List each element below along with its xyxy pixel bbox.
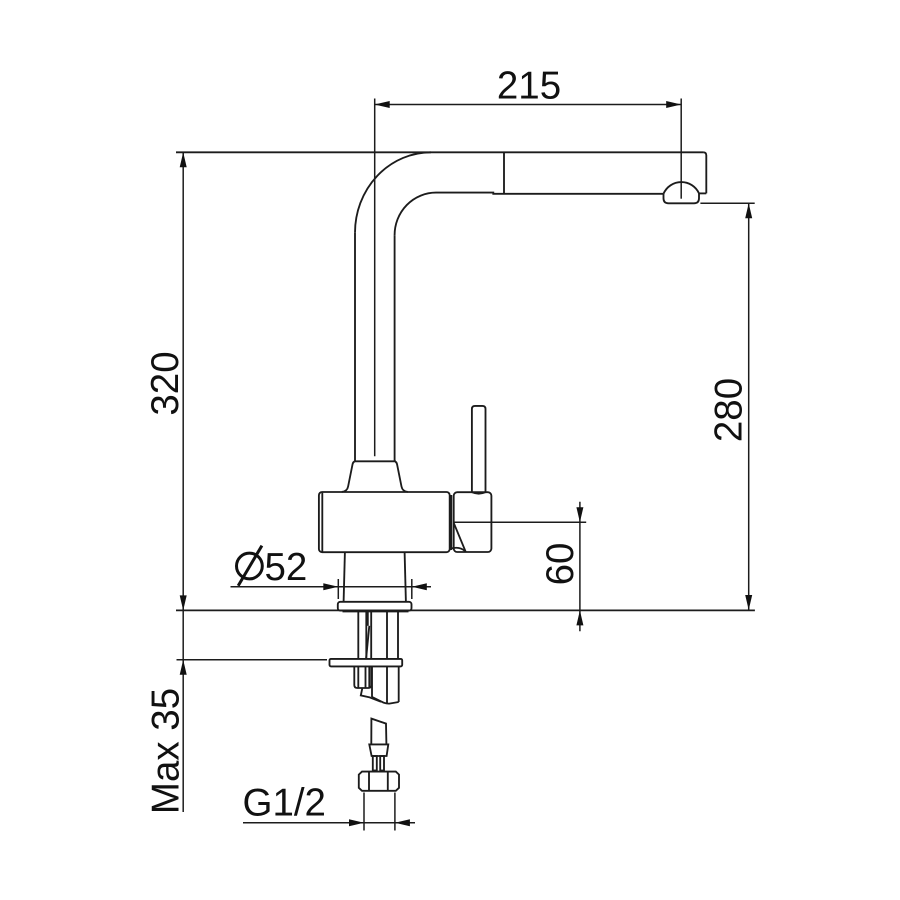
countertop line <box>176 609 755 611</box>
handle cone bottom arc <box>450 548 465 552</box>
handle lever left edge <box>471 409 473 492</box>
handle base joint feature + 60 extension line <box>454 521 587 523</box>
svg-text:Max 35: Max 35 <box>145 688 188 814</box>
left dimension line 320 / Max 35 <box>182 152 184 812</box>
hose prong 2 <box>380 756 384 771</box>
handle lever right edge <box>485 409 487 492</box>
280 top extension line <box>700 202 754 204</box>
aerator dome <box>664 182 700 194</box>
mounting nut facet lines <box>358 666 369 688</box>
svg-text:280: 280 <box>708 378 751 442</box>
spout bottom edge right of aerator <box>699 192 706 194</box>
215 right extension line <box>680 99 682 199</box>
handle lever top cap <box>472 406 486 409</box>
shank line 4 <box>386 612 388 659</box>
handle cone diagonal <box>454 523 466 552</box>
body cone left side <box>342 462 355 492</box>
shank line 3 <box>370 612 372 659</box>
shank hose diagonal <box>366 626 369 659</box>
handle ring line <box>450 495 452 550</box>
body arm outline <box>319 492 450 552</box>
escutcheon flange <box>338 602 412 611</box>
svg-text:52: 52 <box>265 546 308 589</box>
arrow 280 top <box>745 203 752 218</box>
60 dimension line <box>579 502 581 632</box>
arrow diameter52 left <box>323 583 338 590</box>
arrow 320 bottom / Max35 top <box>180 595 187 610</box>
arrow 60 bottom <box>576 610 583 625</box>
tube right edge below washer <box>398 666 400 702</box>
arrow diameter52 right <box>412 583 427 590</box>
tube slanted bottom <box>372 697 399 704</box>
base neck left edge <box>344 552 345 602</box>
spout bottom edge <box>436 193 664 194</box>
shank short line <box>367 612 369 626</box>
hose prong 1 <box>373 756 377 771</box>
G1/2 right extension line <box>394 793 396 831</box>
svg-text:G1/2: G1/2 <box>243 782 326 825</box>
tube left edge below washer <box>371 666 373 697</box>
handle lever bottom sag arc <box>472 492 486 494</box>
spout outer curve <box>355 152 431 232</box>
flange bottom lip <box>343 611 409 613</box>
280 dimension line <box>748 203 750 610</box>
detached hose piece <box>371 719 386 744</box>
arrow 215 left <box>375 101 390 108</box>
riser pipe left edge <box>354 233 356 462</box>
hose stub outline <box>361 688 381 702</box>
diameter symbol slash <box>238 546 262 586</box>
G1/2 nut outline <box>359 772 399 791</box>
riser pipe right edge <box>394 235 396 461</box>
arrow 215 right <box>666 101 681 108</box>
body collar line <box>354 460 396 462</box>
G1/2 dimension line <box>243 822 415 824</box>
shank line 2 <box>365 612 367 659</box>
diameter 52 right extension line <box>411 579 413 599</box>
mounting nut <box>354 666 371 688</box>
diameter 52 dimension line <box>231 586 432 588</box>
hose collar <box>369 744 388 756</box>
shank line 1 <box>357 612 359 659</box>
aerator skirt <box>664 193 700 203</box>
spout top edge + 320 top extension line <box>176 151 704 153</box>
spout right end edge <box>704 152 707 193</box>
spout inner curve <box>395 193 436 236</box>
body cone right side <box>395 462 408 492</box>
215 left extension line (pipe centerline) <box>374 99 376 457</box>
svg-text:60: 60 <box>539 543 582 586</box>
arrow G1/2 left <box>349 819 364 826</box>
handle base block <box>454 492 492 552</box>
svg-text:320: 320 <box>144 351 187 415</box>
arrow Max35 bottom <box>180 660 187 675</box>
washer level extension line <box>177 659 328 661</box>
215 dimension line <box>375 104 682 106</box>
body left cap inner line <box>321 493 323 552</box>
svg-text:215: 215 <box>497 64 561 107</box>
arrow 320 top <box>180 152 187 167</box>
arrow 280 bottom <box>745 595 752 610</box>
tube inner line below washer <box>386 666 388 703</box>
diameter 52 left extension line <box>337 579 339 599</box>
G1/2 left extension line <box>363 793 365 831</box>
G1/2 nut facet lines <box>369 772 388 791</box>
base neck right edge <box>405 552 406 602</box>
shank right edge <box>397 612 399 659</box>
arrow 60 top <box>576 507 583 522</box>
arrow G1/2 right <box>395 819 410 826</box>
diameter symbol circle <box>237 553 263 579</box>
mounting washer <box>330 659 403 667</box>
spray head joint line <box>503 152 505 194</box>
